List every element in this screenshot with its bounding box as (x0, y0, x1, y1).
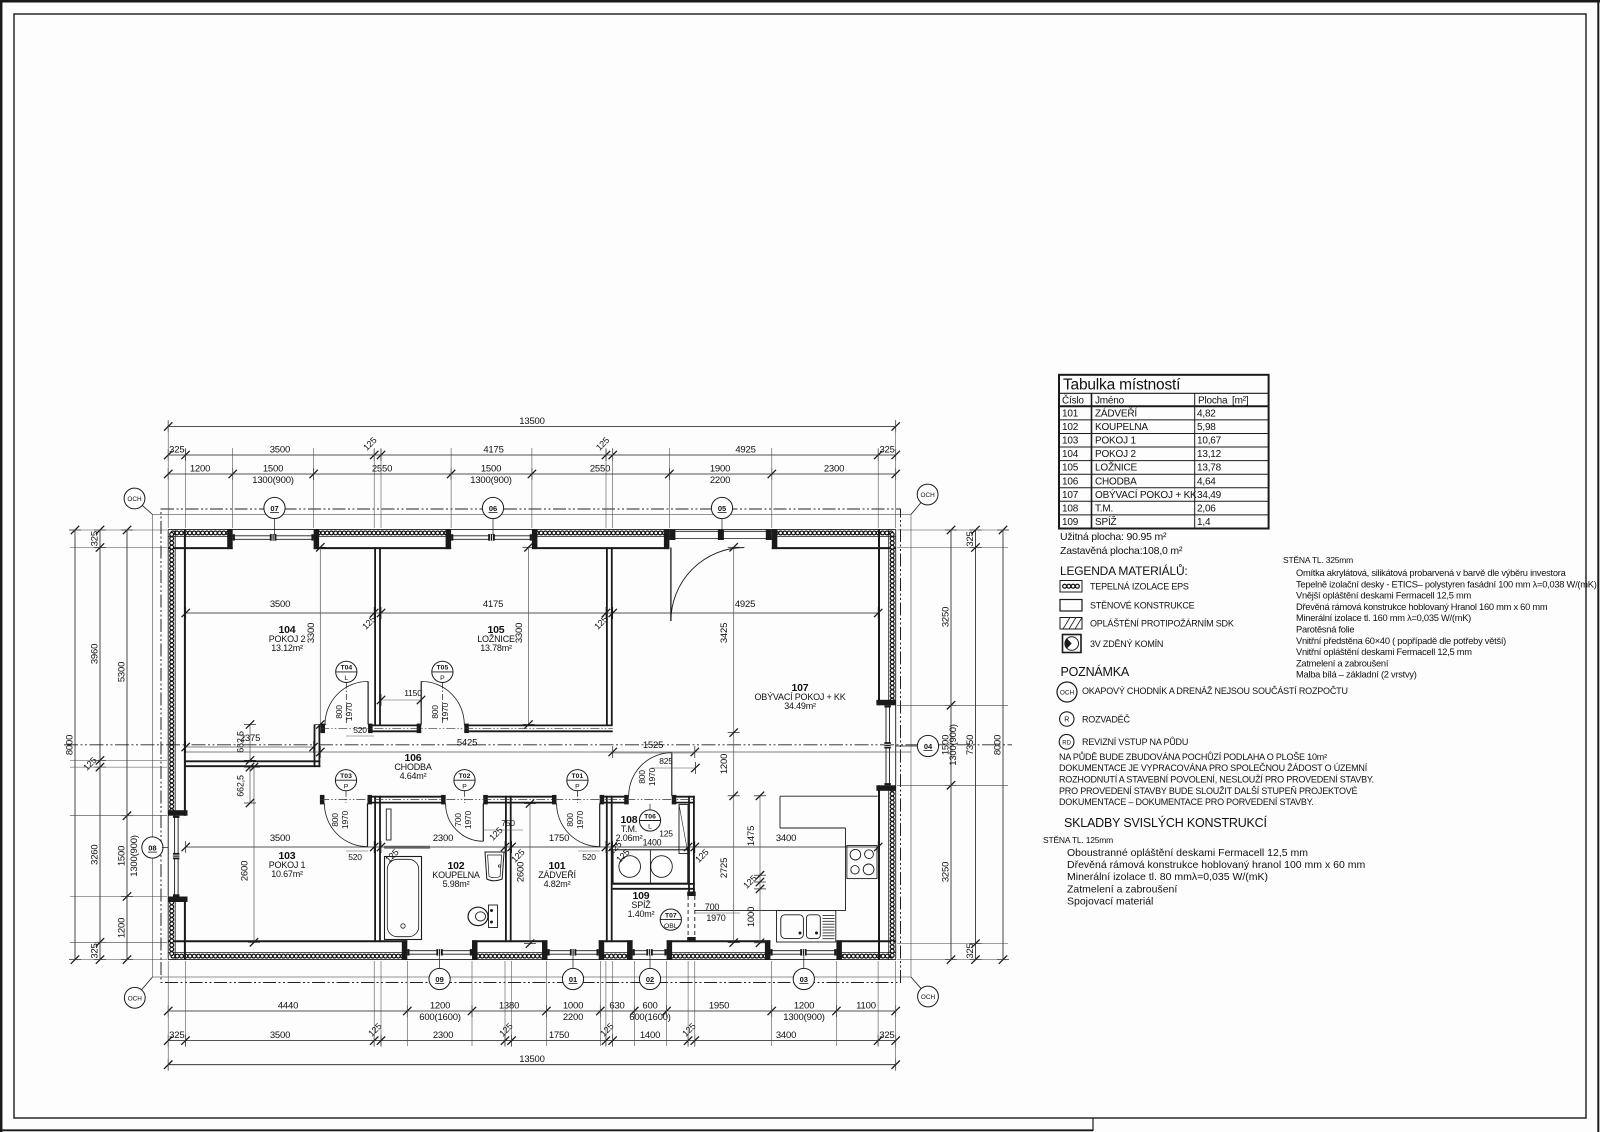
svg-text:1300(900): 1300(900) (252, 475, 294, 486)
svg-text:POKOJ 1: POKOJ 1 (1095, 436, 1136, 447)
svg-text:3400: 3400 (776, 1030, 796, 1041)
svg-text:Omítka akrylátová, silikátová: Omítka akrylátová, silikátová probarvená… (1296, 568, 1567, 578)
svg-text:RD: RD (1062, 740, 1071, 746)
svg-text:L: L (648, 824, 652, 831)
svg-text:STĚNA TL. 325mm: STĚNA TL. 325mm (1283, 555, 1353, 565)
svg-text:600: 600 (642, 1001, 657, 1012)
svg-text:Minerální izolace tl. 80 mmλ=0: Minerální izolace tl. 80 mmλ=0,035 W/(mK… (1067, 871, 1268, 883)
svg-text:101: 101 (1062, 408, 1079, 419)
svg-text:2,06: 2,06 (1197, 503, 1216, 514)
svg-text:OPLÁŠTĚNÍ PROTIPOŽÁRNÍM SDK: OPLÁŠTĚNÍ PROTIPOŽÁRNÍM SDK (1090, 619, 1234, 629)
svg-text:Malba bílá – základní (2 vrstv: Malba bílá – základní (2 vrstvy) (1296, 670, 1417, 680)
svg-text:105: 105 (1062, 463, 1079, 474)
svg-text:Minerální izolace tl. 160 mm λ: Minerální izolace tl. 160 mm λ=0,035 W/(… (1296, 613, 1471, 623)
svg-text:1100: 1100 (856, 1001, 876, 1012)
svg-text:POZNÁMKA: POZNÁMKA (1061, 664, 1130, 679)
svg-text:4175: 4175 (483, 599, 503, 610)
svg-text:1000: 1000 (563, 1001, 583, 1012)
svg-text:1970: 1970 (344, 702, 354, 721)
svg-text:05: 05 (718, 504, 726, 513)
svg-text:1200: 1200 (190, 464, 210, 475)
svg-text:3260: 3260 (90, 845, 101, 865)
svg-text:1300(900): 1300(900) (129, 835, 140, 877)
svg-text:TEPELNÁ IZOLACE EPS: TEPELNÁ IZOLACE EPS (1090, 582, 1189, 592)
svg-text:2300: 2300 (433, 1030, 453, 1041)
svg-text:7350: 7350 (965, 735, 976, 755)
svg-text:OBL: OBL (664, 923, 678, 930)
svg-text:1475: 1475 (746, 826, 757, 846)
svg-text:Užitná plocha: 90.95 m²: Užitná plocha: 90.95 m² (1060, 531, 1167, 543)
svg-text:520: 520 (582, 852, 596, 862)
svg-text:4.82m²: 4.82m² (544, 879, 571, 889)
svg-text:OKAPOVÝ CHODNÍK A DRENÁŽ NEJSO: OKAPOVÝ CHODNÍK A DRENÁŽ NEJSOU SOUČÁSTÍ… (1082, 686, 1348, 696)
svg-text:Zatmelení a zabroušení: Zatmelení a zabroušení (1067, 883, 1177, 895)
svg-text:Parotěsná folie: Parotěsná folie (1296, 625, 1354, 635)
svg-text:T02: T02 (459, 773, 471, 780)
svg-text:125: 125 (659, 829, 673, 839)
svg-text:OCH: OCH (921, 994, 936, 1001)
svg-text:STĚNA TL. 125mm: STĚNA TL. 125mm (1043, 835, 1113, 845)
svg-text:520: 520 (348, 852, 362, 862)
svg-text:3250: 3250 (941, 862, 952, 882)
svg-text:5425: 5425 (457, 738, 477, 749)
svg-text:2300: 2300 (824, 464, 844, 475)
svg-text:3250: 3250 (941, 607, 952, 627)
svg-text:8000: 8000 (993, 735, 1004, 755)
svg-text:102: 102 (1062, 422, 1079, 433)
svg-text:10.67m²: 10.67m² (271, 869, 303, 879)
svg-text:Spojovací materiál: Spojovací materiál (1067, 895, 1153, 907)
svg-text:3960: 3960 (90, 644, 101, 664)
svg-text:2300: 2300 (433, 833, 453, 844)
svg-text:Tepelně izolační desky - ETICS: Tepelně izolační desky - ETICS– polystyr… (1296, 579, 1597, 589)
svg-text:1300(900): 1300(900) (470, 475, 512, 486)
svg-text:800: 800 (334, 705, 344, 719)
svg-text:1400: 1400 (643, 838, 662, 848)
svg-text:CHODBA: CHODBA (1095, 476, 1137, 487)
svg-text:Vnitřní opláštění deskami Ferm: Vnitřní opláštění deskami Fermacell 12,5… (1296, 647, 1472, 657)
svg-text:5.98m²: 5.98m² (443, 879, 470, 889)
svg-text:Dřevěná rámová konstrukce hobl: Dřevěná rámová konstrukce hoblovaný Hran… (1296, 602, 1548, 612)
svg-text:4925: 4925 (735, 445, 755, 456)
svg-text:103: 103 (1062, 436, 1079, 447)
svg-text:1300(900): 1300(900) (783, 1012, 825, 1023)
svg-text:REVIZNÍ VSTUP NA PŮDU: REVIZNÍ VSTUP NA PŮDU (1082, 736, 1188, 747)
svg-text:Oboustranné opláštění deskami: Oboustranné opláštění deskami Fermacell … (1067, 847, 1308, 859)
svg-text:662,5: 662,5 (236, 775, 246, 797)
svg-text:Vnitřní předstěna 60×40 ( popř: Vnitřní předstěna 60×40 ( popřípadě dle … (1296, 636, 1506, 646)
svg-text:1500: 1500 (117, 846, 128, 866)
svg-text:104: 104 (1062, 449, 1079, 460)
svg-text:750: 750 (501, 818, 515, 828)
svg-text:5,98: 5,98 (1197, 422, 1216, 433)
svg-text:800: 800 (330, 813, 340, 827)
svg-text:4925: 4925 (735, 599, 755, 610)
svg-text:OCH: OCH (127, 496, 142, 503)
svg-text:06: 06 (489, 504, 497, 513)
svg-text:325: 325 (169, 445, 184, 456)
svg-text:1150: 1150 (404, 688, 422, 698)
svg-text:800: 800 (430, 705, 440, 719)
svg-text:10,67: 10,67 (1197, 436, 1222, 447)
svg-text:13500: 13500 (519, 1054, 544, 1065)
svg-text:4175: 4175 (483, 445, 503, 456)
svg-text:13,12: 13,12 (1197, 449, 1222, 460)
svg-text:4,82: 4,82 (1197, 408, 1216, 419)
svg-text:Číslo: Číslo (1062, 394, 1084, 407)
svg-text:1380: 1380 (499, 1001, 519, 1012)
svg-text:T01: T01 (572, 773, 584, 780)
svg-text:3500: 3500 (270, 445, 290, 456)
svg-text:OBÝVACÍ POKOJ + KK: OBÝVACÍ POKOJ + KK (1095, 488, 1197, 501)
svg-text:520: 520 (353, 725, 367, 735)
svg-text:P: P (344, 783, 349, 790)
svg-text:T05: T05 (437, 665, 449, 672)
svg-text:2550: 2550 (372, 464, 392, 475)
svg-text:34,49: 34,49 (1197, 490, 1222, 501)
svg-text:3500: 3500 (270, 1030, 290, 1041)
svg-text:3300: 3300 (306, 623, 317, 643)
svg-text:03: 03 (800, 975, 808, 984)
svg-text:SKLADBY SVISLÝCH KONSTRUKCÍ: SKLADBY SVISLÝCH KONSTRUKCÍ (1064, 815, 1267, 830)
svg-text:3425: 3425 (719, 623, 730, 643)
svg-text:1200: 1200 (430, 1001, 450, 1012)
svg-text:01: 01 (569, 975, 577, 984)
svg-text:325: 325 (965, 531, 976, 546)
svg-text:1950: 1950 (709, 1001, 729, 1012)
svg-text:1400: 1400 (640, 1030, 660, 1041)
svg-text:ROZHODNUTÍ A STAVEBNÍ POVOLENÍ: ROZHODNUTÍ A STAVEBNÍ POVOLENÍ, NESLOUŽÍ… (1059, 775, 1374, 785)
svg-text:5300: 5300 (117, 662, 128, 682)
svg-text:1970: 1970 (647, 767, 657, 786)
svg-text:13.12m²: 13.12m² (271, 643, 303, 653)
svg-text:107: 107 (1062, 490, 1079, 501)
svg-text:109: 109 (1062, 517, 1079, 528)
svg-text:13500: 13500 (519, 416, 544, 427)
svg-text:2725: 2725 (719, 858, 730, 878)
svg-text:1970: 1970 (575, 810, 585, 829)
svg-text:P: P (575, 783, 580, 790)
svg-text:1970: 1970 (440, 702, 450, 721)
svg-text:825: 825 (659, 756, 673, 766)
svg-text:2600: 2600 (240, 861, 251, 881)
svg-text:2200: 2200 (563, 1012, 583, 1023)
svg-text:T03: T03 (340, 773, 352, 780)
svg-text:13,78: 13,78 (1197, 463, 1222, 474)
svg-text:T04: T04 (340, 665, 352, 672)
svg-text:1500: 1500 (481, 464, 501, 475)
svg-text:4,64: 4,64 (1197, 476, 1216, 487)
svg-text:700: 700 (453, 813, 463, 827)
svg-text:T.M.: T.M. (1095, 503, 1113, 514)
svg-text:1900: 1900 (710, 464, 730, 475)
svg-text:T06: T06 (644, 813, 656, 820)
svg-text:1000: 1000 (746, 907, 757, 927)
svg-text:108: 108 (1062, 503, 1079, 514)
svg-text:325: 325 (90, 943, 101, 958)
svg-text:3300: 3300 (514, 623, 525, 643)
svg-text:ZÁDVEŘÍ: ZÁDVEŘÍ (1095, 406, 1137, 419)
svg-text:1,4: 1,4 (1197, 517, 1211, 528)
svg-text:Vnější opláštění deskami Ferma: Vnější opláštění deskami Fermacell 12,5 … (1296, 591, 1472, 601)
svg-text:700: 700 (705, 902, 720, 912)
svg-text:630: 630 (609, 1001, 624, 1012)
svg-text:325: 325 (879, 445, 894, 456)
svg-text:OCH: OCH (920, 492, 935, 499)
svg-text:1750: 1750 (549, 1030, 569, 1041)
svg-text:1300(900): 1300(900) (948, 724, 959, 766)
svg-text:STĚNOVÉ KONSTRUKCE: STĚNOVÉ KONSTRUKCE (1090, 601, 1195, 611)
svg-text:2200: 2200 (710, 475, 730, 486)
svg-text:1200: 1200 (117, 918, 128, 938)
svg-text:1970: 1970 (463, 810, 473, 829)
svg-text:L: L (344, 675, 348, 682)
svg-text:2550: 2550 (590, 464, 610, 475)
svg-text:DOKUMENTACE JE VYPRACOVÁNA PRO: DOKUMENTACE JE VYPRACOVÁNA PRO SPOLEČNOU… (1059, 763, 1368, 773)
svg-text:Jméno: Jméno (1095, 396, 1125, 407)
svg-text:Zatmelení a zabroušení: Zatmelení a zabroušení (1296, 658, 1389, 668)
svg-text:07: 07 (270, 504, 278, 513)
svg-text:106: 106 (1062, 476, 1079, 487)
svg-text:T07: T07 (665, 912, 677, 919)
svg-text:800: 800 (637, 770, 647, 784)
svg-text:R: R (1064, 717, 1069, 724)
svg-text:1750: 1750 (549, 833, 569, 844)
svg-text:1500: 1500 (263, 464, 283, 475)
svg-text:3500: 3500 (270, 833, 290, 844)
svg-text:DOKUMENTACE – DOKUMENTACE PRO: DOKUMENTACE – DOKUMENTACE PRO PORVEDENÍ … (1059, 797, 1314, 807)
svg-text:POKOJ 2: POKOJ 2 (1095, 449, 1136, 460)
svg-text:3500: 3500 (270, 599, 290, 610)
svg-text:1970: 1970 (340, 810, 350, 829)
svg-text:KOUPELNA: KOUPELNA (1095, 422, 1148, 433)
svg-text:PRO PROVEDENÍ STAVBY BUDE SLOU: PRO PROVEDENÍ STAVBY BUDE SLOUŽIT DALŠÍ … (1059, 786, 1358, 796)
svg-text:325: 325 (879, 1030, 894, 1041)
svg-text:LOŽNICE: LOŽNICE (1095, 461, 1137, 474)
svg-text:34.49m²: 34.49m² (784, 701, 816, 711)
svg-text:2375: 2375 (240, 733, 260, 744)
svg-text:SPÍŽ: SPÍŽ (1095, 515, 1117, 528)
svg-text:2.06m²: 2.06m² (616, 833, 643, 843)
svg-text:4.64m²: 4.64m² (400, 771, 427, 781)
svg-text:1200: 1200 (794, 1001, 814, 1012)
svg-text:[m²]: [m²] (1232, 396, 1249, 407)
svg-text:08: 08 (148, 843, 156, 852)
svg-text:04: 04 (924, 742, 933, 751)
svg-text:600(1600): 600(1600) (419, 1012, 461, 1023)
svg-text:1.40m²: 1.40m² (628, 909, 655, 919)
svg-text:2600: 2600 (516, 862, 527, 882)
svg-text:Zastavěná plocha:108,0 m²: Zastavěná plocha:108,0 m² (1060, 545, 1183, 557)
svg-text:8000: 8000 (65, 735, 76, 755)
svg-text:09: 09 (435, 975, 443, 984)
svg-text:Tabulka místností: Tabulka místností (1063, 377, 1181, 394)
svg-text:Plocha: Plocha (1198, 396, 1228, 407)
svg-text:OCH: OCH (128, 995, 143, 1002)
svg-text:325: 325 (169, 1030, 184, 1041)
svg-text:325: 325 (965, 943, 976, 958)
svg-text:3400: 3400 (776, 833, 796, 844)
svg-text:ROZVADĚČ: ROZVADĚČ (1082, 715, 1130, 725)
svg-text:1200: 1200 (719, 754, 730, 774)
svg-text:1525: 1525 (643, 740, 663, 751)
svg-text:P: P (462, 783, 467, 790)
svg-text:P: P (440, 675, 445, 682)
svg-text:600(1600): 600(1600) (629, 1012, 671, 1023)
svg-text:OCH: OCH (1060, 690, 1075, 697)
svg-text:13.78m²: 13.78m² (480, 643, 512, 653)
svg-text:Dřevěná rámová konstrukce hobl: Dřevěná rámová konstrukce hoblovaný hran… (1067, 859, 1365, 871)
svg-text:325: 325 (90, 531, 101, 546)
svg-text:800: 800 (565, 813, 575, 827)
svg-text:4440: 4440 (278, 1001, 298, 1012)
svg-text:NA PŮDĚ BUDE ZBUDOVÁNA POCHŮZÍ: NA PŮDĚ BUDE ZBUDOVÁNA POCHŮZÍ PODLAHA O… (1059, 751, 1327, 762)
svg-text:02: 02 (646, 975, 654, 984)
svg-text:1970: 1970 (706, 913, 725, 923)
svg-text:3V ZDĚNÝ KOMÍN: 3V ZDĚNÝ KOMÍN (1090, 639, 1163, 649)
svg-text:LEGENDA MATERIÁLŮ:: LEGENDA MATERIÁLŮ: (1060, 563, 1188, 578)
